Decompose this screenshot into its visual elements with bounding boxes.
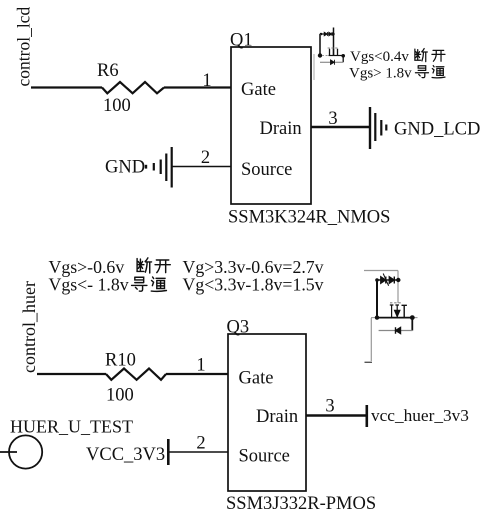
svg-text:Drain: Drain xyxy=(260,119,302,139)
svg-text:SSM3J332R-PMOS: SSM3J332R-PMOS xyxy=(226,494,376,514)
net label vcc_huer_3v3 xyxy=(367,405,469,427)
svg-text:control_lcd: control_lcd xyxy=(14,7,34,87)
svg-text:2: 2 xyxy=(201,148,210,168)
note Vgs>1.8v on xyxy=(349,66,445,82)
svg-text:R10: R10 xyxy=(105,351,136,371)
wire drain Q1 xyxy=(311,126,369,128)
svg-text:GND: GND xyxy=(105,158,145,178)
note Vgs<0.4v off xyxy=(350,49,445,65)
svg-text:Drain: Drain xyxy=(256,407,298,427)
wire gate Q3 right xyxy=(166,373,228,375)
svg-text:100: 100 xyxy=(106,386,134,406)
test point circle xyxy=(0,435,42,468)
note line Vgs<-1.8v on xyxy=(49,275,324,295)
svg-text:R6: R6 xyxy=(97,61,119,81)
svg-text:3: 3 xyxy=(325,397,334,417)
svg-text:Gate: Gate xyxy=(239,369,274,389)
svg-text:Source: Source xyxy=(239,447,290,467)
svg-text:SSM3K324R_NMOS: SSM3K324R_NMOS xyxy=(228,208,390,228)
net label control_lcd xyxy=(14,7,34,87)
net label control_huer xyxy=(19,281,39,373)
svg-text:GND_LCD: GND_LCD xyxy=(394,120,480,140)
wire gate Q3 left xyxy=(37,373,106,375)
svg-text:100: 100 xyxy=(103,96,131,116)
ground GND_LCD xyxy=(370,107,480,149)
svg-text:Gate: Gate xyxy=(241,80,276,100)
svg-text:control_huer: control_huer xyxy=(19,281,39,373)
transistor Q1 box xyxy=(231,47,311,204)
power port VCC_3V3 xyxy=(86,439,168,465)
resistor R10 xyxy=(105,351,166,406)
svg-text:Vgs> 1.8v: Vgs> 1.8v xyxy=(349,66,412,82)
svg-text:HUER_U_TEST: HUER_U_TEST xyxy=(10,417,133,437)
wire source Q3 xyxy=(169,451,228,453)
svg-text:Vgs<- 1.8v: Vgs<- 1.8v xyxy=(49,275,129,295)
svg-text:3: 3 xyxy=(328,109,337,129)
svg-text:1: 1 xyxy=(202,71,211,91)
transistor Q3 box xyxy=(228,334,306,491)
svg-text:Q1: Q1 xyxy=(230,31,253,51)
svg-text:Vgs<0.4v: Vgs<0.4v xyxy=(350,49,409,65)
wire gate Q1 right xyxy=(164,86,231,88)
svg-text:vcc_huer_3v3: vcc_huer_3v3 xyxy=(371,406,469,425)
note line Vgs>-0.6v off xyxy=(49,257,324,277)
svg-text:VCC_3V3: VCC_3V3 xyxy=(86,445,165,465)
svg-text:Vg<3.3v-1.8v=1.5v: Vg<3.3v-1.8v=1.5v xyxy=(183,275,324,295)
wire drain Q3 xyxy=(306,414,366,416)
svg-text:1: 1 xyxy=(196,356,205,376)
wire gate Q1 left xyxy=(31,86,102,88)
svg-text:Source: Source xyxy=(241,160,292,180)
PMOS detail icon xyxy=(364,271,418,363)
wire source Q1 xyxy=(172,166,231,168)
resistor R6 xyxy=(97,61,164,116)
NMOS detail icon xyxy=(314,28,345,81)
ground GND xyxy=(105,147,172,188)
svg-text:2: 2 xyxy=(196,434,205,454)
svg-text:Q3: Q3 xyxy=(227,318,250,338)
